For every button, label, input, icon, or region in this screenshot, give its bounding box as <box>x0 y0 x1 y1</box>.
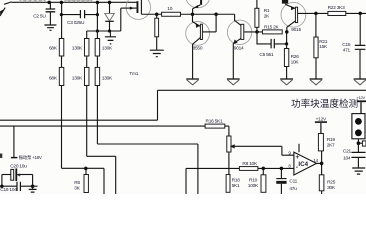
ground symbol (C21) <box>352 168 365 174</box>
wire: bus y120.8 <box>0 119 158 121</box>
ground on clamp line <box>105 31 116 44</box>
svg-text:C5 561: C5 561 <box>259 52 274 58</box>
resistor 130K #4 <box>95 56 100 144</box>
svg-text:R26: R26 <box>291 54 300 60</box>
ground (source resistor) <box>150 50 164 57</box>
svg-text:9015: 9015 <box>291 27 301 33</box>
resistor 130K #2 <box>84 56 89 156</box>
ground for C2 <box>44 25 56 30</box>
svg-text:C2 5U: C2 5U <box>33 14 46 20</box>
svg-text:8550: 8550 <box>193 45 203 51</box>
resistor R10 100K <box>261 168 266 192</box>
capacitor C3 025U <box>80 10 84 18</box>
ground symbol (9014 emitter) <box>227 79 240 85</box>
wire: corner bus A (col1 to bottom) <box>62 167 105 194</box>
svg-text:R15 2K: R15 2K <box>264 24 280 30</box>
resistor 130K #3 (column 3) <box>95 2 100 56</box>
transistor emitter stub cut at top-left edge <box>0 2 12 16</box>
wire: long rail y92 <box>158 90 366 120</box>
svg-text:R16 5K1: R16 5K1 <box>206 119 223 125</box>
capacitor C20 10u loop <box>2 168 33 186</box>
svg-text:功率块温度检测: 功率块温度检测 <box>291 98 358 110</box>
wire: corner bus C (col3 to bottom) <box>97 144 197 194</box>
edge mark at left <box>0 154 2 159</box>
svg-text:IC4: IC4 <box>298 161 308 168</box>
svg-text:R18: R18 <box>232 178 241 184</box>
MOSFET Q1 <box>121 0 151 31</box>
svg-text:5K1: 5K1 <box>232 183 240 189</box>
svg-text:C3 025U: C3 025U <box>67 20 85 26</box>
wire: top rail <box>12 1 138 3</box>
resistor R15 2K <box>262 30 282 34</box>
transistor 9014 <box>227 14 262 78</box>
capacitor C11 47u <box>276 168 286 194</box>
svg-text:C19 104: C19 104 <box>0 187 17 193</box>
wire: bus y126.5 <box>0 126 229 136</box>
svg-text:68K: 68K <box>49 75 58 81</box>
resistor R21 15K <box>314 13 318 78</box>
svg-text:C15: C15 <box>342 42 351 48</box>
svg-text:47u: 47u <box>289 186 297 192</box>
svg-text:10: 10 <box>167 6 172 12</box>
svg-text:R22 3K3: R22 3K3 <box>328 5 345 11</box>
svg-text:振动泵 +18V: 振动泵 +18V <box>19 154 42 161</box>
svg-text:104: 104 <box>343 156 351 162</box>
svg-text:130K: 130K <box>72 45 83 51</box>
resistor R25 30K <box>319 175 324 194</box>
svg-text:R21: R21 <box>319 39 328 45</box>
wire: bottom rail with C19 <box>0 184 38 188</box>
svg-text:R1: R1 <box>264 8 270 14</box>
+12V supply (thermistor) <box>357 101 366 113</box>
junction dots on top rail <box>47 1 111 5</box>
svg-text:100K: 100K <box>248 183 259 189</box>
resistor R6 3K <box>84 168 88 192</box>
resistor R18 5K1 <box>226 175 230 193</box>
svg-text:R10: R10 <box>249 178 258 184</box>
svg-text:C20 10u: C20 10u <box>10 164 27 170</box>
capacitor C19 104 <box>17 182 20 191</box>
op-amp IC4 <box>294 144 324 175</box>
wire: clamp/gate line <box>87 29 121 32</box>
diode D1 <box>105 2 115 31</box>
svg-text:15K: 15K <box>319 44 328 50</box>
wire: C3 branch <box>60 13 99 16</box>
resistor 68K #2 <box>59 56 64 168</box>
+12V supply above R19 <box>315 121 327 123</box>
capacitor C2 5U <box>46 2 56 24</box>
resistor 10 (horizontal) <box>162 12 181 16</box>
power tap +18V <box>11 126 18 158</box>
arrow wire into op-amp + input <box>230 144 294 155</box>
resistor R19 2K7 <box>318 123 323 175</box>
svg-text:9014: 9014 <box>234 45 244 51</box>
ground symbol (C15) <box>354 79 366 85</box>
resistor R26 10K <box>284 44 288 79</box>
svg-text:Tm1: Tm1 <box>129 71 138 77</box>
inductor L2 <box>64 0 92 2</box>
svg-text:+: + <box>18 173 21 179</box>
transistor 9015 <box>281 0 316 34</box>
resistor R16 5K1 <box>205 124 225 128</box>
svg-text:R19: R19 <box>327 137 336 143</box>
svg-text:R25: R25 <box>327 180 336 186</box>
wire: op-amp inverting input bus <box>186 167 294 194</box>
wire and dots on R22 line <box>314 12 366 16</box>
resistor R22 3K3 <box>328 11 346 15</box>
wire: source rail <box>141 13 234 17</box>
svg-text:130K: 130K <box>102 75 113 81</box>
resistor R7 <box>227 136 231 175</box>
resistor R8 10K <box>239 167 258 171</box>
ground symbol (R21) <box>310 79 323 85</box>
resistor R1 2K <box>255 0 259 32</box>
svg-text:R8 10K: R8 10K <box>242 161 258 167</box>
capacitor C15 471 <box>355 13 366 78</box>
ground symbol (8550 collector) <box>186 79 199 85</box>
capacitor C21 104 <box>351 143 365 168</box>
svg-text:68K: 68K <box>49 45 58 51</box>
svg-text:471: 471 <box>343 47 351 53</box>
transistor 8550 <box>186 14 216 78</box>
wire: corner bus B (col2 to bottom) <box>87 156 116 194</box>
ground symbol (R26) <box>280 79 293 85</box>
resistor 130K #1 (column 2) <box>84 31 89 56</box>
svg-text:2K7: 2K7 <box>327 142 335 148</box>
svg-text:130K: 130K <box>102 45 113 51</box>
svg-text:C21: C21 <box>343 148 352 154</box>
resistor on source column x157 <box>155 14 159 50</box>
thermistor/connector box <box>352 114 365 139</box>
svg-text:R6: R6 <box>74 180 80 186</box>
wire: base drop from source rail <box>215 14 217 32</box>
node below thermistor box <box>357 139 366 146</box>
svg-text:+12V: +12V <box>316 117 327 123</box>
transistor (top, cut by crop) <box>186 0 211 14</box>
ground (bottom rail) <box>29 186 37 192</box>
resistor 68K #1 (column 1) <box>59 2 64 56</box>
svg-text:130K: 130K <box>72 75 83 81</box>
svg-text:30K: 30K <box>327 185 336 191</box>
svg-text:C11: C11 <box>289 179 297 185</box>
inductor L1 <box>20 0 46 2</box>
svg-text:+12V: +12V <box>357 95 366 100</box>
svg-text:10K: 10K <box>291 59 300 65</box>
capacitor C5 561 <box>257 32 288 49</box>
